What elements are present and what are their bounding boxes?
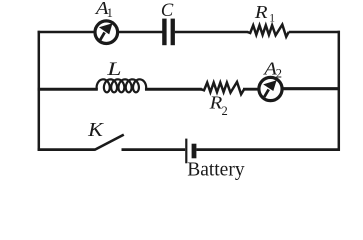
ammeter A2 xyxy=(259,77,282,100)
label R1 xyxy=(254,3,275,24)
resistor R1 zigzag xyxy=(248,25,289,37)
battery long plate xyxy=(185,139,187,164)
battery short plate xyxy=(192,144,197,159)
svg-text:C: C xyxy=(161,1,174,21)
wire right vertical xyxy=(338,31,341,151)
svg-text:2: 2 xyxy=(222,104,228,118)
wire middle-left segment xyxy=(38,88,98,91)
resistor R2 zigzag xyxy=(201,82,244,94)
svg-text:1: 1 xyxy=(269,12,275,24)
svg-text:R: R xyxy=(209,94,223,113)
wire bottom-left to switch xyxy=(38,148,95,151)
wire capacitor to R1 xyxy=(175,31,248,33)
wire inductor to R2 xyxy=(145,88,202,91)
svg-text:K: K xyxy=(87,118,105,141)
label R2 xyxy=(209,94,228,118)
svg-text:2: 2 xyxy=(276,67,282,81)
svg-text:L: L xyxy=(106,58,121,79)
wire R2 to A2 xyxy=(243,88,260,91)
label A2 xyxy=(262,60,282,81)
switch K blade xyxy=(94,135,124,150)
svg-text:Battery: Battery xyxy=(187,160,245,181)
wire switch to battery xyxy=(122,148,186,151)
svg-text:1: 1 xyxy=(107,6,113,20)
wire R1 to top-right corner xyxy=(289,31,340,33)
wire battery to bottom-right corner xyxy=(196,148,340,151)
wire A1 to capacitor xyxy=(118,31,163,33)
wire top-left segment xyxy=(38,31,95,33)
label A1 xyxy=(94,0,113,20)
svg-text:R: R xyxy=(254,3,268,22)
inductor L coil xyxy=(97,79,147,92)
wire A2 to right vertical xyxy=(282,87,341,90)
wire left vertical xyxy=(38,31,41,151)
capacitor C plates xyxy=(162,19,175,46)
ammeter A1 xyxy=(95,21,118,44)
